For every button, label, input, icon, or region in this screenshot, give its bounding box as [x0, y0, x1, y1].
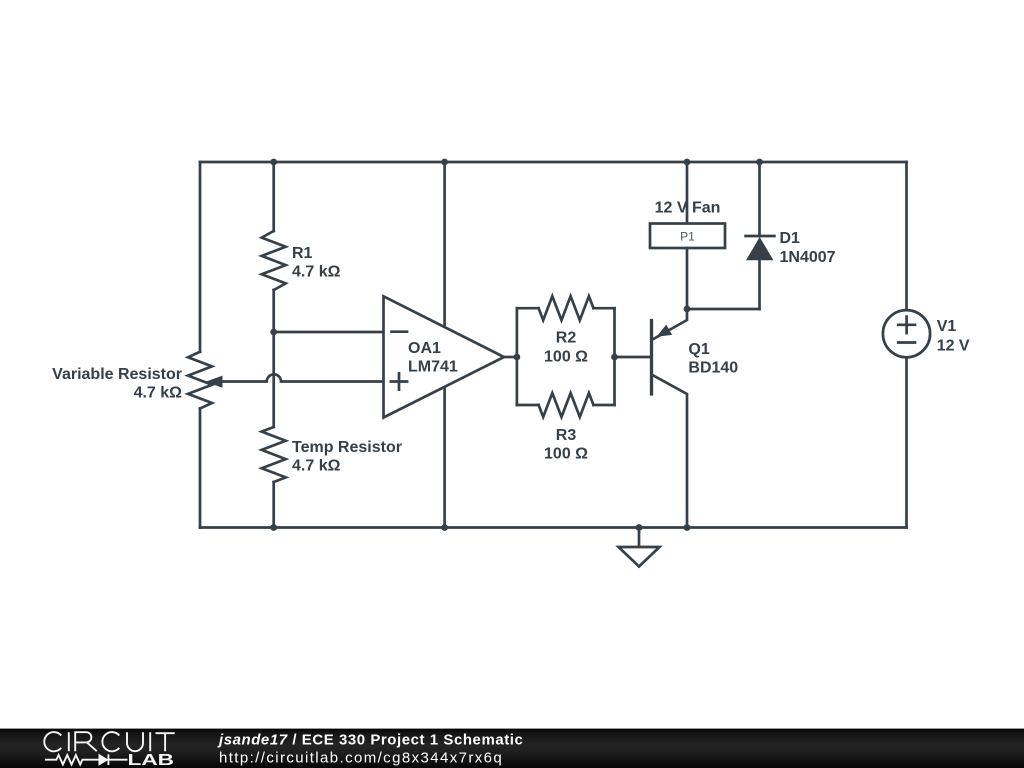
node top rail / fan	[684, 159, 691, 166]
svg-text:V1: V1	[937, 318, 957, 335]
V1 plus sign	[898, 317, 915, 333]
node R2R3 right	[611, 354, 618, 361]
wire fan column upper	[686, 162, 689, 224]
wire V1 column lower	[905, 357, 908, 527]
svg-text:100 Ω: 100 Ω	[544, 349, 588, 366]
wire diode column lower	[758, 259, 761, 309]
transistor Q1 base bar	[650, 321, 653, 395]
svg-text:1N4007: 1N4007	[780, 249, 836, 266]
fan P1 box	[650, 224, 725, 249]
wire diode column upper	[758, 162, 761, 236]
wire fan column lower	[686, 248, 689, 309]
logo letter C	[102, 732, 119, 751]
node emitter	[684, 306, 691, 313]
node bottom rail / ground	[636, 524, 643, 531]
node op-amp output	[514, 354, 521, 361]
svg-text:LM741: LM741	[408, 359, 458, 376]
svg-text:4.7 kΩ: 4.7 kΩ	[134, 385, 183, 402]
wire left rail upper	[199, 162, 202, 352]
footer bar	[0, 729, 1024, 768]
wire op-amp supply column	[443, 162, 446, 528]
logo letter R	[75, 732, 97, 751]
svg-text:LAB: LAB	[128, 752, 175, 768]
svg-text:Q1: Q1	[688, 341, 709, 358]
node top rail / op-amp supply	[441, 159, 448, 166]
logo letter I	[149, 732, 151, 751]
wire R3 leads	[517, 404, 615, 407]
wire top rail	[200, 161, 907, 164]
transistor Q1 emitter arrow	[657, 325, 673, 337]
wire V1 column upper	[905, 162, 908, 309]
temp resistor body	[262, 427, 286, 482]
resistor R3 body	[539, 393, 594, 417]
node top rail / diode	[756, 159, 763, 166]
wire base of Q1	[615, 356, 652, 359]
ground stem	[638, 528, 641, 548]
svg-text:BD140: BD140	[688, 360, 738, 377]
logo letter T	[156, 733, 175, 751]
svg-text:12 V Fan: 12 V Fan	[655, 200, 721, 217]
resistor R2 body	[539, 296, 594, 320]
node bottom rail / collector	[684, 524, 691, 531]
transistor Q1 emitter diagonal	[652, 309, 688, 340]
svg-text:jsande17 / ECE 330 Project 1 S: jsande17 / ECE 330 Project 1 Schematic	[217, 731, 523, 748]
wiper arrow of variable resistor	[206, 376, 223, 388]
svg-text:http://circuitlab.com/cg8x344x: http://circuitlab.com/cg8x344x7rx6q	[219, 750, 503, 767]
node bottom rail / op-amp supply	[441, 524, 448, 531]
svg-text:12 V: 12 V	[937, 338, 970, 355]
logo letter U	[127, 732, 143, 751]
node top rail / R1	[270, 159, 277, 166]
op-amp plus sign	[391, 373, 407, 389]
svg-text:Variable Resistor: Variable Resistor	[52, 366, 182, 383]
op-amp OA1 triangle	[384, 296, 505, 417]
svg-text:P1: P1	[680, 230, 695, 244]
wire non-inverting input with hop	[222, 374, 384, 381]
svg-text:OA1: OA1	[408, 340, 441, 357]
svg-text:R1: R1	[292, 245, 313, 262]
svg-text:4.7 kΩ: 4.7 kΩ	[292, 264, 341, 281]
V1 minus sign	[898, 341, 915, 344]
wire R1 column upper	[272, 162, 275, 231]
logo resistor squiggle	[45, 755, 99, 765]
wire left rail lower	[199, 409, 202, 528]
svg-text:100 Ω: 100 Ω	[544, 446, 588, 463]
svg-text:R2: R2	[556, 330, 577, 347]
wire emitter node to diode	[687, 308, 760, 311]
wire temp resistor column lower	[272, 482, 275, 528]
resistor R1 body	[262, 231, 286, 290]
wire R2R3 right rail	[613, 308, 616, 405]
wire bottom rail	[200, 526, 907, 529]
node bottom rail / temp resistor	[270, 524, 277, 531]
svg-text:D1: D1	[780, 230, 801, 247]
wire R2 leads	[517, 307, 615, 310]
wire inverting input	[274, 331, 384, 334]
diode D1 cathode bar	[746, 235, 775, 238]
svg-text:4.7 kΩ: 4.7 kΩ	[292, 458, 341, 475]
wire op-amp output	[504, 356, 517, 359]
svg-text:R3: R3	[556, 427, 577, 444]
logo letter I	[68, 732, 70, 751]
op-amp minus sign	[392, 330, 408, 333]
svg-text:Temp Resistor: Temp Resistor	[292, 439, 402, 456]
wire R1 column middle	[272, 290, 275, 427]
node inverting input	[270, 329, 277, 336]
logo letter C	[44, 732, 61, 751]
transistor Q1 collector diagonal	[652, 375, 688, 528]
diode D1 triangle	[746, 237, 773, 260]
wire R2R3 left rail	[516, 308, 519, 405]
voltage source V1 circle	[883, 310, 930, 357]
logo diode symbol	[99, 755, 108, 766]
variable resistor VR body	[188, 352, 212, 409]
ground triangle	[619, 547, 660, 567]
